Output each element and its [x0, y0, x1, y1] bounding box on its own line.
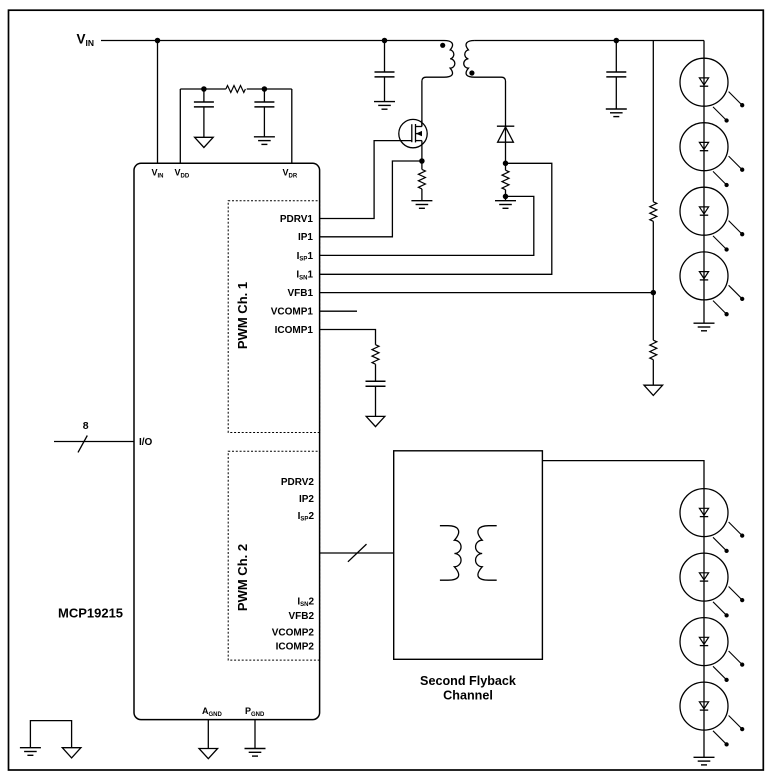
- svg-text:I/O: I/O: [139, 437, 153, 448]
- MOSFET Q1 channel bar: [415, 124, 417, 142]
- MOSFET Q1 gate bar: [411, 124, 413, 142]
- LED D3: [680, 123, 744, 187]
- analog ground CVDD: [195, 137, 214, 147]
- wire VDR pin: [291, 89, 293, 163]
- wire PDRV1 to gate: [320, 141, 412, 219]
- wire diode to node: [505, 126, 507, 170]
- wire VCOMP1 stub: [320, 310, 357, 312]
- junction VIN/Cin: [382, 38, 386, 42]
- svg-text:VCOMP2: VCOMP2: [272, 627, 315, 638]
- svg-text:ICOMP2: ICOMP2: [276, 641, 315, 652]
- capacitor CVDR: [263, 89, 265, 102]
- svg-text:Second Flyback: Second Flyback: [420, 674, 517, 688]
- capacitor Cin: [384, 41, 386, 73]
- MOSFET Q1 arrow: [416, 131, 422, 136]
- svg-text:Channel: Channel: [443, 688, 493, 702]
- junction VFB1: [651, 291, 655, 295]
- ground Cout: [606, 109, 627, 117]
- junction diode out: [503, 161, 507, 165]
- IC U1 MCP19215 body: [134, 163, 320, 719]
- svg-text:PDRV2: PDRV2: [281, 477, 315, 488]
- wire Isn1: [320, 163, 552, 274]
- LED D6: [680, 489, 744, 553]
- wire VDD-VDR top: [180, 88, 226, 90]
- MOSFET Q1 source stub: [416, 140, 422, 142]
- bus slash I/O: [78, 436, 87, 453]
- svg-text:MCP19215: MCP19215: [58, 606, 123, 621]
- MOSFET Q1 middle stub: [416, 133, 422, 135]
- wire ground tie: [30, 721, 71, 748]
- resistor Rfb2: [650, 340, 657, 360]
- svg-text:VFB2: VFB2: [288, 611, 314, 622]
- diode D1 cathode bar: [497, 125, 514, 127]
- MOSFET Q1 drain stub: [416, 126, 422, 128]
- wire VFB1: [320, 292, 654, 294]
- bus slash PWM2: [348, 544, 367, 562]
- LED D8: [680, 618, 744, 682]
- wire flyback2 to LED chain 2: [542, 461, 704, 489]
- transformer T2 left winding: [440, 526, 461, 581]
- junction VDR cap: [262, 87, 266, 91]
- wire ICOMP1: [320, 330, 376, 345]
- resistor RICOMP: [372, 345, 379, 365]
- MOSFET Q1 body: [399, 119, 427, 147]
- wire secondary output rail: [475, 40, 704, 42]
- ground Rsense: [495, 201, 516, 209]
- wire divider middle: [652, 221, 654, 340]
- analog ground ICOMP: [366, 416, 385, 426]
- ground PGND: [245, 749, 266, 757]
- resistor Rfb1: [650, 202, 657, 222]
- svg-text:PDRV1: PDRV1: [280, 214, 314, 225]
- transformer T1 primary dot: [440, 43, 445, 48]
- wire LED chain 1: [703, 41, 705, 324]
- capacitor CICOMP: [366, 381, 386, 386]
- ground tie analog: [62, 748, 81, 758]
- ground CVDR: [254, 137, 275, 145]
- transformer T1 secondary winding: [464, 41, 506, 127]
- wire Isp1: [320, 196, 534, 255]
- svg-text:8: 8: [83, 420, 89, 432]
- junction VDD cap: [202, 87, 206, 91]
- wire PWM2 bus: [320, 552, 394, 554]
- wire feedback divider top: [652, 41, 654, 202]
- svg-text:VFB1: VFB1: [287, 288, 313, 299]
- ground tie earth: [20, 748, 41, 756]
- wire AGND pin: [207, 720, 209, 749]
- diode D1 triangle: [498, 127, 514, 142]
- wire VDD pin: [179, 89, 181, 163]
- capacitor CVDD: [203, 89, 205, 102]
- analog ground AGND: [199, 749, 218, 759]
- LED D7: [680, 553, 744, 617]
- capacitor Cout: [615, 41, 617, 73]
- junction VIN/pin: [155, 38, 159, 42]
- junction source/IP1: [420, 159, 424, 163]
- wire LED chain 2: [703, 488, 705, 757]
- junction Rsense bottom: [503, 194, 507, 198]
- analog ground divider: [644, 385, 663, 395]
- box Second Flyback Channel: [394, 451, 543, 660]
- resistor Rsrc: [418, 169, 425, 189]
- dashed box PWM Ch. 2: [228, 451, 319, 660]
- ground LED chain 2: [694, 757, 715, 765]
- wire VIN rail: [101, 40, 444, 42]
- ground Rsrc: [411, 201, 432, 209]
- LED D4: [680, 187, 744, 251]
- wire drain: [421, 120, 423, 126]
- svg-text:VCOMP1: VCOMP1: [271, 307, 314, 318]
- wire VIN to pin VIN: [157, 41, 159, 164]
- ground LED chain 1: [694, 323, 715, 331]
- wire IP1 to source node: [320, 161, 422, 237]
- transformer T1 secondary dot: [469, 70, 474, 75]
- wire I/O bus: [54, 441, 134, 443]
- wire source down: [421, 141, 423, 170]
- svg-text:IP2: IP2: [299, 494, 314, 505]
- resistor RVDD: [226, 86, 246, 93]
- LED D2: [680, 58, 744, 122]
- svg-text:PWM Ch. 2: PWM Ch. 2: [235, 544, 250, 611]
- svg-text:IP1: IP1: [298, 232, 313, 243]
- resistor Rsense: [502, 170, 509, 190]
- ground Cin: [374, 102, 395, 110]
- dashed box PWM Ch. 1: [228, 201, 319, 433]
- svg-text:PWM Ch. 1: PWM Ch. 1: [235, 282, 250, 349]
- wire PGND pin: [254, 720, 256, 749]
- LED D5: [680, 252, 744, 316]
- LED D9: [680, 682, 744, 746]
- svg-text:ICOMP1: ICOMP1: [275, 325, 314, 336]
- transformer T1 primary winding: [422, 41, 455, 127]
- junction output cap: [614, 38, 618, 42]
- transformer T2 right winding: [476, 526, 497, 581]
